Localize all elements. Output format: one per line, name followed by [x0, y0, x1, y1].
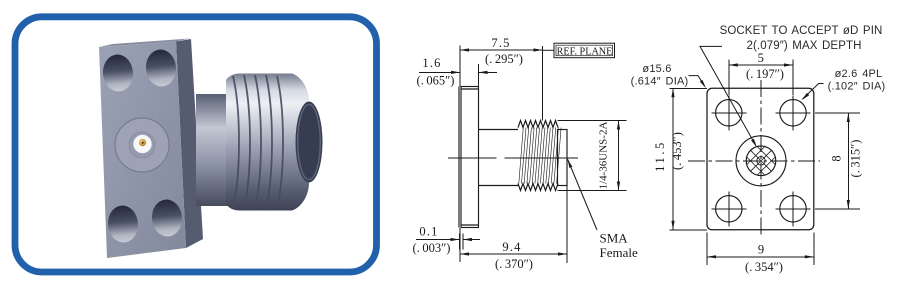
- thread sawtooth bottom: [518, 184, 558, 191]
- socket leader: [700, 46, 756, 145]
- svg-text:9.4: 9.4: [502, 240, 521, 254]
- photo: dielectric: [133, 135, 151, 153]
- dimension 11.5: [669, 88, 707, 230]
- svg-text:(. 065″): (. 065″): [417, 74, 455, 88]
- svg-text:(. 354″): (. 354″): [745, 260, 783, 274]
- svg-text:2(.079″) MAX DEPTH: 2(.079″) MAX DEPTH: [747, 40, 862, 52]
- svg-text:(. 315″): (. 315″): [849, 140, 863, 178]
- dimension 5: [729, 60, 793, 96]
- centerline: [448, 157, 578, 159]
- rear body: [558, 130, 568, 186]
- svg-text:0.1: 0.1: [419, 225, 438, 239]
- flange outline: [707, 88, 814, 230]
- svg-text:7.5: 7.5: [491, 36, 510, 50]
- photo: mounting hole TR: [144, 48, 177, 87]
- svg-text:ø15.6: ø15.6: [642, 63, 671, 75]
- photo: flange front face: [99, 42, 186, 259]
- svg-text:(. 295″): (. 295″): [485, 52, 523, 66]
- svg-text:8: 8: [830, 155, 844, 161]
- svg-text:SOCKET TO ACCEPT øD PIN: SOCKET TO ACCEPT øD PIN: [720, 25, 883, 37]
- hole crosshairs: [711, 95, 810, 226]
- thread sawtooth top: [518, 121, 558, 128]
- photo: mounting hole BR: [150, 198, 183, 237]
- neck: [479, 129, 519, 131]
- svg-text:Female: Female: [600, 245, 638, 260]
- svg-text:(.102″ DIA): (.102″ DIA): [828, 81, 886, 93]
- dimension 9.4: [460, 186, 567, 263]
- photo: center pin: [139, 139, 146, 146]
- svg-text:ø2.6 4PL: ø2.6 4PL: [835, 68, 883, 80]
- photo: nut end cap: [296, 102, 323, 183]
- svg-text:SMA: SMA: [600, 231, 629, 246]
- svg-text:(. 453″): (. 453″): [670, 132, 684, 170]
- svg-text:11.5: 11.5: [653, 140, 667, 172]
- svg-text:REF. PLANE: REF. PLANE: [557, 46, 613, 57]
- photo: coupling nut body: [226, 74, 309, 211]
- photo: mounting hole TL: [101, 53, 134, 92]
- REF. PLANE box: [543, 43, 615, 58]
- svg-text:(. 003″): (. 003″): [413, 241, 451, 255]
- thread hatch: [519, 128, 561, 184]
- svg-text:1/4-36UNS-2A: 1/4-36UNS-2A: [598, 122, 610, 190]
- mounting holes: [716, 100, 807, 222]
- dimension 9: [707, 233, 814, 266]
- SMA Female label: [568, 159, 598, 230]
- photo: connector neck: [196, 94, 230, 206]
- photo: nut grooves: [233, 76, 239, 208]
- svg-text:(. 370″): (. 370″): [495, 257, 533, 271]
- blue frame: [15, 17, 377, 272]
- dimension 1.6: [419, 64, 497, 87]
- dashed centerlines: [688, 160, 820, 162]
- svg-text:(. 197″): (. 197″): [746, 67, 784, 81]
- dimension 7.5: [460, 46, 543, 87]
- photo: mounting hole BL: [106, 204, 139, 243]
- REF plane line: [542, 46, 544, 121]
- photo: flange right side face: [176, 39, 203, 248]
- dimension 8: [815, 113, 860, 209]
- dimension 0.1: [416, 234, 480, 250]
- svg-text:1.6: 1.6: [422, 56, 441, 70]
- photo: center boss: [115, 118, 169, 172]
- svg-text:(.614″ DIA): (.614″ DIA): [631, 76, 689, 88]
- svg-text:9: 9: [758, 243, 764, 257]
- photo: flange top face: [99, 39, 190, 48]
- crosshatch: [747, 147, 776, 176]
- flange body: [461, 87, 479, 228]
- flange front face line: [458, 87, 460, 228]
- center circles: [736, 136, 786, 186]
- svg-text:5: 5: [758, 51, 764, 65]
- thread spec dimension 1/4-36UNS-2A: [558, 121, 627, 191]
